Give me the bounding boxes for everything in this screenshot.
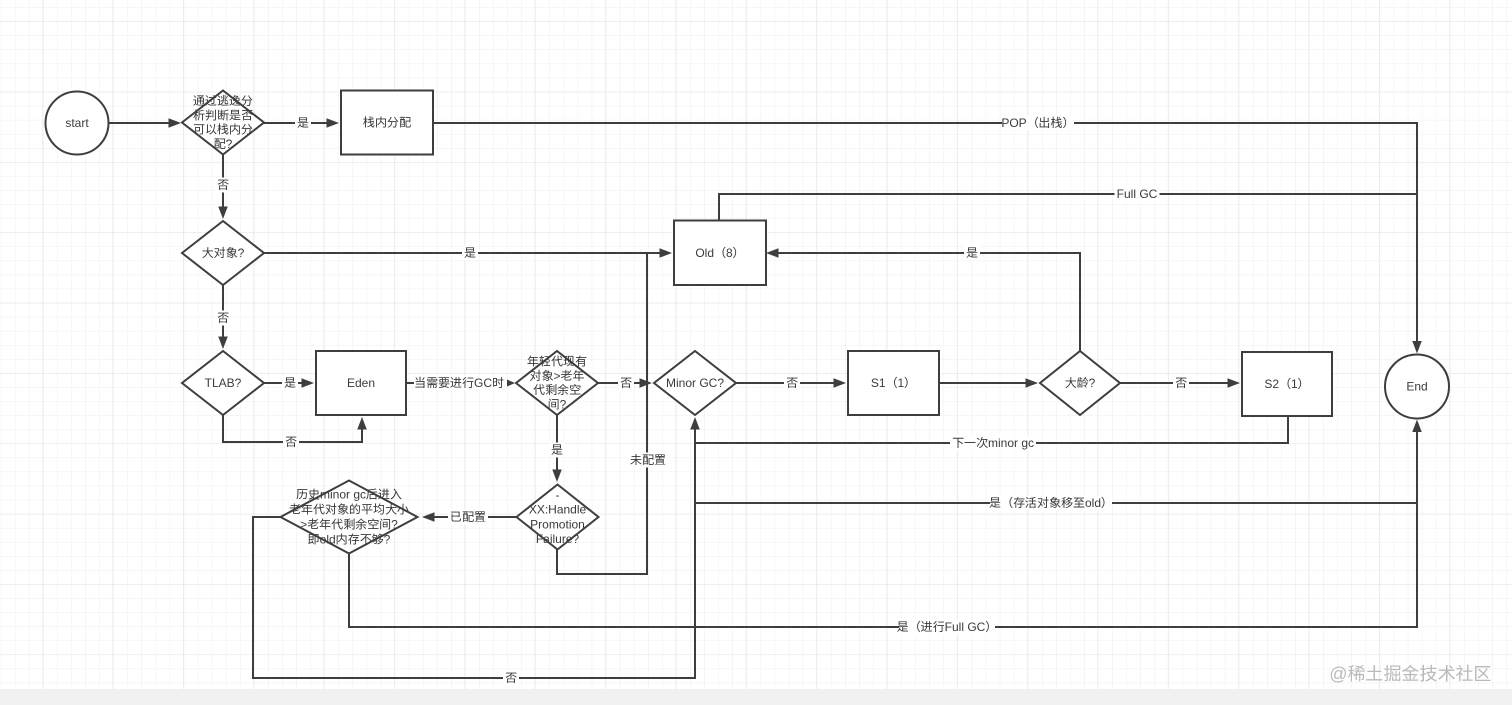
svg-text:历史minor gc后进入: 历史minor gc后进入	[296, 487, 402, 501]
arrowhead into D6 left	[1026, 378, 1039, 388]
wire start->D1	[109, 122, 178, 124]
arrowhead into Old left	[660, 248, 673, 258]
svg-text:否: 否	[620, 376, 632, 390]
label no6	[283, 435, 299, 450]
svg-text:>老年代剩余空间?: >老年代剩余空间?	[300, 518, 398, 532]
wire D2->Old yes	[264, 252, 669, 254]
wire D3->Eden yes	[264, 382, 311, 384]
svg-text:否: 否	[217, 178, 229, 192]
wire D4->D5 no	[598, 382, 649, 384]
svg-text:否: 否	[786, 376, 798, 390]
svg-text:间?: 间?	[548, 397, 567, 411]
arrowhead into Old right	[766, 248, 779, 258]
svg-text:是: 是	[966, 246, 978, 260]
svg-text:@稀土掘金技术社区: @稀土掘金技术社区	[1329, 664, 1491, 684]
label no5	[1173, 376, 1189, 391]
svg-text:老年代对象的平均大小: 老年代对象的平均大小	[289, 503, 410, 517]
wire D1->R1 yes	[264, 122, 336, 124]
decision diamond D2 big-object	[182, 221, 264, 285]
process box R3 Eden	[316, 351, 406, 415]
wire D7 not-configured to Old	[557, 253, 647, 574]
label yes1	[295, 116, 311, 131]
wire D3 no loop to Eden bottom	[223, 415, 362, 442]
svg-text:对象>老年: 对象>老年	[529, 369, 585, 383]
process box R2 Old	[674, 221, 766, 286]
svg-text:End: End	[1406, 380, 1427, 394]
terminal circle start	[46, 92, 109, 155]
svg-text:Minor GC?: Minor GC?	[666, 376, 724, 390]
svg-text:否: 否	[1175, 376, 1187, 390]
arrowhead into Eden left	[302, 378, 315, 388]
label yes-do-fullgc	[897, 620, 998, 635]
arrowhead into S2 left	[1228, 378, 1241, 388]
arrowhead into D3 top	[218, 337, 228, 350]
svg-text:XX:Handle: XX:Handle	[529, 503, 587, 517]
svg-text:配?: 配?	[214, 137, 233, 151]
label yes3	[964, 246, 980, 261]
svg-text:Eden: Eden	[347, 376, 375, 390]
svg-text:年轻代现有: 年轻代现有	[527, 355, 587, 369]
wire MinorGC yes survivors to End	[695, 502, 1417, 504]
wire S2 next minor gc	[695, 416, 1288, 443]
arrowhead into D5 bottom	[690, 417, 700, 430]
svg-text:否: 否	[285, 435, 297, 449]
arrowhead into Eden bottom	[357, 417, 367, 430]
label not-configured	[628, 453, 668, 468]
wire R1->End POP	[433, 123, 1417, 350]
decision diamond D6 age	[1040, 351, 1120, 415]
label next-minor-gc	[950, 436, 1036, 451]
process box R4 S1	[848, 351, 939, 415]
wire D6->S2 no	[1120, 382, 1237, 384]
label no3	[618, 376, 634, 391]
process box R1 stack-alloc	[341, 91, 433, 155]
arrowhead into End bottom	[1412, 420, 1422, 433]
label yes4	[282, 376, 298, 391]
decision diamond D7 HandlePromotionFailure	[517, 485, 599, 550]
label no4	[784, 376, 800, 391]
wire D8 yes FullGC to End	[349, 423, 1417, 627]
arrowhead into D8 right	[422, 512, 435, 522]
svg-text:下一次minor gc: 下一次minor gc	[952, 436, 1034, 450]
label yes2	[462, 246, 478, 261]
label no7	[503, 671, 519, 686]
label yes5	[549, 443, 565, 458]
svg-text:S2（1）: S2（1）	[1264, 377, 1309, 391]
svg-text:是: 是	[297, 116, 309, 130]
arrowhead into D1	[169, 118, 182, 128]
svg-text:已配置: 已配置	[450, 510, 486, 524]
decision diamond D5 MinorGC	[654, 351, 736, 415]
svg-text:Promotion: Promotion	[530, 517, 585, 531]
svg-text:未配置: 未配置	[629, 453, 666, 467]
arrowhead into D7 top	[552, 470, 562, 483]
svg-text:大龄?: 大龄?	[1065, 376, 1096, 390]
svg-text:-: -	[556, 488, 560, 502]
label no1	[215, 178, 231, 193]
svg-text:是（存活对象移至old）: 是（存活对象移至old）	[989, 496, 1113, 510]
arrowhead into End top	[1412, 341, 1422, 354]
wire D8 no loop to D5 bottom	[253, 420, 695, 678]
svg-text:析判断是否: 析判断是否	[192, 108, 253, 122]
arrowhead into D4 left	[507, 380, 515, 387]
decision diamond D1 escape-analysis	[182, 91, 264, 155]
svg-text:可以栈内分: 可以栈内分	[193, 123, 253, 137]
svg-text:start: start	[65, 116, 89, 130]
wire D7->D8 configured	[425, 516, 517, 518]
label when-gc-needed	[414, 376, 504, 391]
decision diamond D3 TLAB	[182, 351, 264, 415]
arrowhead into S1 left	[834, 378, 847, 388]
terminal circle End	[1385, 355, 1449, 419]
label FullGC	[1115, 187, 1160, 202]
svg-text:否: 否	[505, 671, 517, 685]
wire D6->Old yes via top	[769, 253, 1080, 351]
svg-text:Old（8）: Old（8）	[695, 246, 744, 260]
svg-text:是: 是	[464, 246, 476, 260]
svg-text:Failure?: Failure?	[536, 532, 580, 546]
label no2	[215, 311, 231, 326]
decision diamond D8 history-avg-check	[281, 481, 418, 554]
wire D5->S1 no	[736, 382, 843, 384]
svg-text:是: 是	[551, 443, 563, 457]
arrowhead into D5 left	[640, 378, 653, 388]
decision diamond D4 young-gen-check	[516, 351, 598, 415]
arrowhead into R1	[327, 118, 340, 128]
svg-text:是: 是	[284, 376, 296, 390]
svg-text:代剩余空: 代剩余空	[532, 383, 581, 397]
svg-text:TLAB?: TLAB?	[205, 376, 242, 390]
svg-text:S1（1）: S1（1）	[871, 376, 916, 390]
wire Old->FullGC line	[719, 194, 1417, 350]
arrowhead into D2 top	[218, 207, 228, 220]
svg-text:即old内存不够?: 即old内存不够?	[308, 533, 391, 547]
svg-text:是（进行Full GC）: 是（进行Full GC）	[897, 620, 998, 634]
process box R5 S2	[1242, 352, 1332, 416]
label configured	[448, 510, 488, 525]
wire D1->D2 no	[222, 155, 224, 217]
label yes-move-to-old	[989, 496, 1113, 511]
svg-text:大对象?: 大对象?	[202, 246, 245, 260]
wire Eden->D4	[406, 382, 504, 384]
svg-text:栈内分配: 栈内分配	[363, 116, 411, 130]
svg-text:当需要进行GC时: 当需要进行GC时	[414, 376, 504, 390]
svg-text:否: 否	[217, 311, 229, 325]
svg-text:POP（出栈）: POP（出栈）	[1001, 116, 1074, 130]
wire D4->D7 yes	[556, 415, 558, 479]
svg-text:通过逃逸分: 通过逃逸分	[193, 94, 253, 108]
wire D2->D3 no	[222, 285, 224, 346]
bottom gray strip	[0, 689, 1512, 705]
wire S1->D6	[939, 382, 1035, 384]
label POP	[1001, 116, 1074, 131]
svg-text:Full GC: Full GC	[1117, 187, 1158, 201]
